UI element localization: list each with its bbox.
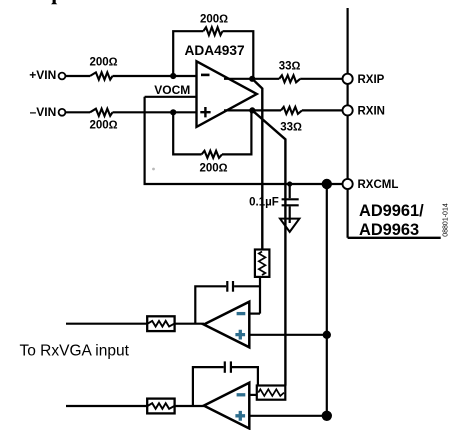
wire U2 feedback left vertical	[195, 286, 226, 323]
junction node RXCML/bus	[322, 179, 332, 189]
op-amp U1 ADA4937	[197, 61, 257, 127]
svg-text:–VIN: –VIN	[30, 105, 57, 119]
junction node bus end/U3 +input	[322, 411, 332, 421]
wire +VIN to R1	[65, 75, 90, 77]
svg-text:200Ω: 200Ω	[89, 120, 117, 132]
AD9963 chip left edge	[347, 8, 349, 238]
wire R8 to U2 inverting input	[259, 277, 261, 314]
resistor R2 200ohm (-VIN input)	[90, 109, 113, 116]
pin RXCML	[343, 179, 353, 189]
wire VOCM to RXCML net	[145, 97, 343, 184]
wire R1 to U1 inverting input	[113, 75, 197, 77]
wire R2 to U1 non-inverting input	[113, 111, 197, 113]
svg-text:0.1µF: 0.1µF	[249, 196, 279, 208]
svg-text:AD9963: AD9963	[359, 221, 419, 239]
wire top feedback left vertical	[173, 31, 203, 76]
U3 minus pin symbol	[237, 393, 246, 396]
wire C3 to R10 node	[232, 367, 258, 385]
svg-text:AD9961/: AD9961/	[359, 202, 424, 220]
junction node RXCML/cap	[287, 181, 292, 186]
resistor R5 33ohm (RXIP series)	[279, 75, 300, 82]
pin RXIN	[343, 105, 353, 115]
caption fragment (cropped letter stem at top)	[51, 0, 57, 4]
svg-text:200Ω: 200Ω	[199, 163, 227, 175]
resistor R8 (U2 feedback to RXIP net, boxed vertical)	[255, 250, 270, 277]
wire top feedback right vertical	[223, 31, 254, 79]
wire U1 top output	[224, 78, 279, 80]
wire R9 to U3 output	[175, 405, 204, 407]
svg-text:33Ω: 33Ω	[280, 122, 302, 134]
wire U2 non-inverting input to bus	[249, 334, 326, 336]
resistor R3 200ohm (top feedback)	[203, 27, 222, 35]
wire R7 to U2 output	[175, 323, 204, 325]
wire U3 inverting input	[249, 394, 256, 396]
svg-text:ADA4937: ADA4937	[185, 43, 245, 58]
U2 plus pin symbol	[235, 330, 245, 340]
wire common-mode bus vertical	[326, 184, 328, 416]
artifact: faint scan speck	[152, 168, 155, 171]
AD9963 chip bottom edge	[348, 237, 441, 239]
wire U3 feedback left vertical	[193, 367, 224, 406]
ground	[280, 219, 299, 232]
wire RxVGA input line 1	[66, 323, 147, 325]
wire RxVGA input line 2	[66, 405, 147, 407]
wire -VIN to R2	[65, 111, 90, 113]
svg-text:RXIN: RXIN	[358, 106, 385, 118]
svg-text:33Ω: 33Ω	[279, 60, 301, 72]
junction node at U1 +input	[170, 109, 176, 115]
resistor R4 200ohm (bottom feedback)	[202, 151, 222, 158]
wire VOCM pin	[145, 96, 197, 98]
resistor R10 (U3 feedback to RXIN net, boxed)	[257, 386, 286, 400]
junction node U1 +output	[249, 76, 255, 82]
junction node bus/U2 +input	[323, 331, 331, 339]
capacitor C1 0.1uF	[282, 184, 299, 205]
resistor R7 (U2 output series, boxed)	[147, 316, 174, 331]
resistor R6 33ohm (RXIN series)	[281, 107, 302, 114]
op-amp U2	[204, 302, 250, 348]
wire R5 to RXIP	[300, 78, 342, 80]
U3 plus pin symbol	[235, 411, 245, 421]
wire diagonal U1 -output down	[252, 110, 285, 385]
terminal -VIN	[59, 109, 66, 116]
U2 minus pin symbol	[237, 312, 246, 315]
terminal +VIN	[59, 73, 66, 80]
wire R6 to RXIN	[302, 109, 343, 111]
wire bottom feedback right vertical	[222, 110, 251, 154]
svg-text:200Ω: 200Ω	[89, 57, 117, 69]
junction node at U1 -input	[170, 73, 176, 79]
svg-text:08801-014: 08801-014	[443, 203, 450, 237]
svg-text:VOCM: VOCM	[154, 83, 190, 97]
svg-text:To RxVGA input: To RxVGA input	[20, 343, 130, 360]
op-amp U3	[204, 383, 250, 429]
resistor R9 (U3 output series, boxed)	[147, 399, 174, 414]
capacitor C2 (U2 feedback)	[227, 281, 233, 292]
svg-text:200Ω: 200Ω	[200, 13, 228, 25]
wire diagonal U1 +output down	[252, 79, 262, 250]
U1 minus pin symbol	[201, 74, 210, 77]
svg-text:RXIP: RXIP	[358, 74, 385, 86]
wire U1 bottom output	[224, 109, 281, 111]
svg-text:+VIN: +VIN	[29, 68, 56, 82]
wire C2 to R8 node	[234, 285, 260, 287]
capacitor C3 (U3 feedback)	[225, 361, 231, 372]
wire C1 to ground	[289, 206, 291, 223]
svg-text:RXCML: RXCML	[358, 179, 399, 191]
resistor R1 200ohm (+VIN input)	[90, 72, 113, 79]
U1 plus pin symbol	[200, 107, 210, 117]
wire U3 non-inverting input to bus	[249, 415, 326, 417]
wire U2 inverting input	[249, 313, 260, 315]
pin RXIP	[343, 74, 353, 84]
wire bottom feedback left vertical	[173, 112, 201, 154]
junction node U1 -output	[249, 107, 255, 113]
